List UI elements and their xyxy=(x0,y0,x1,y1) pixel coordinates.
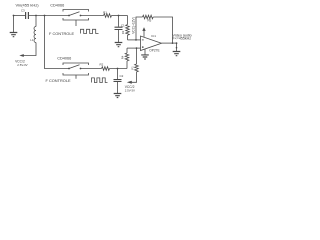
inductor L1 xyxy=(35,16,37,27)
wire input to C3 xyxy=(14,15,26,17)
svg-text:VCC(+12V): VCC(+12V) xyxy=(132,17,136,33)
resistor R1 xyxy=(104,14,112,18)
svg-text:P1: P1 xyxy=(130,66,134,70)
svg-text:F CONTROLE: F CONTROLE xyxy=(46,78,71,83)
wire switch1 to R1 xyxy=(81,15,104,17)
wire switch2 to R2 xyxy=(81,68,102,70)
ground input xyxy=(10,33,18,37)
arrow VCC/2 bottom xyxy=(127,81,132,84)
svg-text:R5: R5 xyxy=(148,19,152,23)
svg-text:L1: L1 xyxy=(30,38,33,42)
svg-text:CD4066: CD4066 xyxy=(57,57,71,61)
plus sign xyxy=(142,46,144,48)
switch U1b box bottom bracket xyxy=(63,73,89,75)
resistor R2 xyxy=(102,67,110,71)
wire op-amp output xyxy=(162,42,177,44)
svg-text:2.5V-3V: 2.5V-3V xyxy=(17,63,27,67)
svg-text:C1: C1 xyxy=(121,23,125,27)
wire input ground stub xyxy=(13,16,15,33)
ground op-amp xyxy=(144,49,146,55)
ground output xyxy=(173,52,181,56)
svg-text:F CONTROLE: F CONTROLE xyxy=(49,31,74,36)
resistor R4 vertical xyxy=(126,48,128,53)
wire R1 to corner xyxy=(112,15,128,17)
wire node B down to switch2 row xyxy=(45,16,70,69)
wire R5 to output xyxy=(153,17,172,43)
node feedback junction xyxy=(172,42,174,44)
switch U1a contact dots xyxy=(68,15,70,17)
wire C3 to switch xyxy=(29,15,69,17)
svg-text:R3: R3 xyxy=(121,30,125,34)
svg-text:Vin(455 kHz): Vin(455 kHz) xyxy=(16,3,40,8)
switch U1b control pin xyxy=(75,75,77,79)
op-amp IC1 xyxy=(141,36,162,51)
wire R3 to minus input xyxy=(128,39,141,41)
ground C1 xyxy=(115,43,123,47)
node minus xyxy=(135,39,137,41)
svg-text:2.5V-3V: 2.5V-3V xyxy=(125,89,135,93)
wire R2 to node D xyxy=(110,68,128,70)
node C (R1 out) xyxy=(118,15,120,17)
switch U1b contact dots xyxy=(68,68,70,70)
node plus junction xyxy=(136,47,138,49)
wire feedback vertical xyxy=(136,17,143,40)
switch U1b box top bracket xyxy=(63,63,89,65)
svg-text:C3: C3 xyxy=(21,9,25,13)
node D xyxy=(117,68,119,70)
svg-text:R2: R2 xyxy=(100,63,104,67)
resistor R5 feedback xyxy=(143,15,154,19)
wire plus input xyxy=(127,47,141,49)
node B xyxy=(44,15,46,17)
node input xyxy=(13,15,15,17)
switch U1b lever xyxy=(69,65,80,69)
switch U1a box bottom bracket xyxy=(63,18,89,20)
resistor R3 vertical xyxy=(127,16,129,25)
svg-text:IC1: IC1 xyxy=(151,34,156,38)
capacitor C2 xyxy=(117,69,119,80)
capacitor C3 xyxy=(26,12,29,19)
wire C2 to ground xyxy=(117,82,119,93)
node A xyxy=(35,15,37,17)
power arrow VCC op-amp xyxy=(143,31,145,37)
svg-text:R4: R4 xyxy=(120,55,124,59)
waveform square 1 xyxy=(81,29,99,33)
svg-text:OP27E: OP27E xyxy=(149,49,159,53)
svg-text:CD4066: CD4066 xyxy=(50,3,64,7)
minus sign xyxy=(142,39,144,41)
arrow VCC/2 left xyxy=(19,54,24,57)
svg-text:C2: C2 xyxy=(120,74,124,78)
switch U1a lever xyxy=(69,12,80,16)
switch U1a box top bracket xyxy=(63,10,89,12)
wire output ground stub xyxy=(176,43,178,51)
node output xyxy=(176,42,178,44)
switch U1a control pin xyxy=(75,20,77,26)
capacitor C1 xyxy=(118,16,120,27)
waveform square 2 xyxy=(92,78,108,83)
wire L1 to vcc2 arrow xyxy=(23,43,36,56)
wire C1 to ground xyxy=(118,30,120,42)
potentiometer P1 xyxy=(136,48,138,64)
svg-text:F<=455kHz: F<=455kHz xyxy=(173,37,192,41)
wire node D up to R4 xyxy=(126,61,128,69)
ground C2 xyxy=(114,94,122,98)
